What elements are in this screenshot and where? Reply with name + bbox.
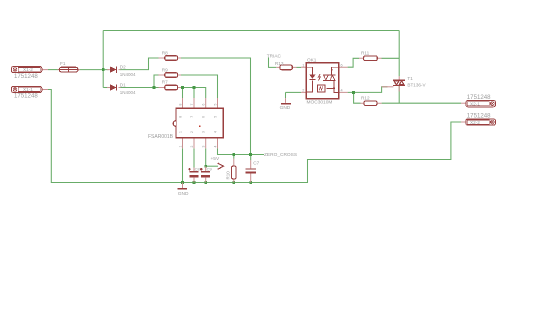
svg-text:4: 4 [213,146,217,148]
svg-text:X1-2: X1-2 [23,67,33,72]
svg-text:1N4004: 1N4004 [120,90,136,95]
svg-text:1N4004: 1N4004 [120,72,136,77]
svg-text:GND: GND [280,105,291,111]
svg-text:OK1: OK1 [307,58,317,63]
svg-text:7: 7 [190,104,194,106]
svg-text:R10: R10 [226,171,231,180]
svg-text:GND: GND [178,191,189,197]
svg-text:3: 3 [202,146,206,148]
svg-text:MOC3010M: MOC3010M [307,100,333,106]
svg-text:1751248: 1751248 [467,94,491,101]
svg-text:2: 2 [190,146,194,148]
svg-text:8: 8 [179,116,183,118]
svg-text:FSAR001B: FSAR001B [148,134,174,140]
svg-text:D1: D1 [120,83,126,88]
svg-text:T1: T1 [407,76,413,81]
svg-text:4: 4 [214,131,218,133]
svg-text:TRIAC: TRIAC [267,53,282,58]
svg-text:1: 1 [179,131,183,133]
svg-text:X1-1: X1-1 [23,87,33,92]
svg-text:ZERO_CROSS: ZERO_CROSS [264,152,297,158]
svg-text:3: 3 [202,131,206,133]
svg-text:+5V: +5V [211,156,220,162]
svg-text:X2-1: X2-1 [470,101,480,106]
svg-text:BT136-V: BT136-V [407,83,426,88]
svg-text:6: 6 [202,104,206,106]
svg-text:2: 2 [190,131,194,133]
svg-text:R11: R11 [361,51,370,56]
svg-text:F1: F1 [60,61,66,66]
svg-text:5: 5 [213,104,217,106]
svg-text:R7: R7 [162,79,168,84]
svg-text:4: 4 [341,89,343,93]
svg-text:R9: R9 [162,68,168,73]
svg-text:X2-2: X2-2 [470,120,480,125]
svg-text:R13: R13 [275,61,284,66]
svg-text:1751248: 1751248 [14,93,38,100]
svg-text:6: 6 [202,116,206,118]
svg-text:1: 1 [178,146,182,148]
svg-text:D2: D2 [120,65,126,70]
svg-text:R12: R12 [361,96,370,101]
svg-text:1: 1 [302,64,304,68]
svg-text:7: 7 [190,116,194,118]
svg-text:C7: C7 [253,161,259,166]
svg-text:2: 2 [302,89,304,93]
svg-text:5: 5 [214,116,218,118]
svg-text:8: 8 [178,104,182,106]
svg-text:C9: C9 [207,167,213,172]
svg-text:6: 6 [341,64,343,68]
svg-text:C8: C8 [195,167,201,172]
svg-text:R8: R8 [162,51,168,56]
svg-text:1751248: 1751248 [14,73,38,80]
